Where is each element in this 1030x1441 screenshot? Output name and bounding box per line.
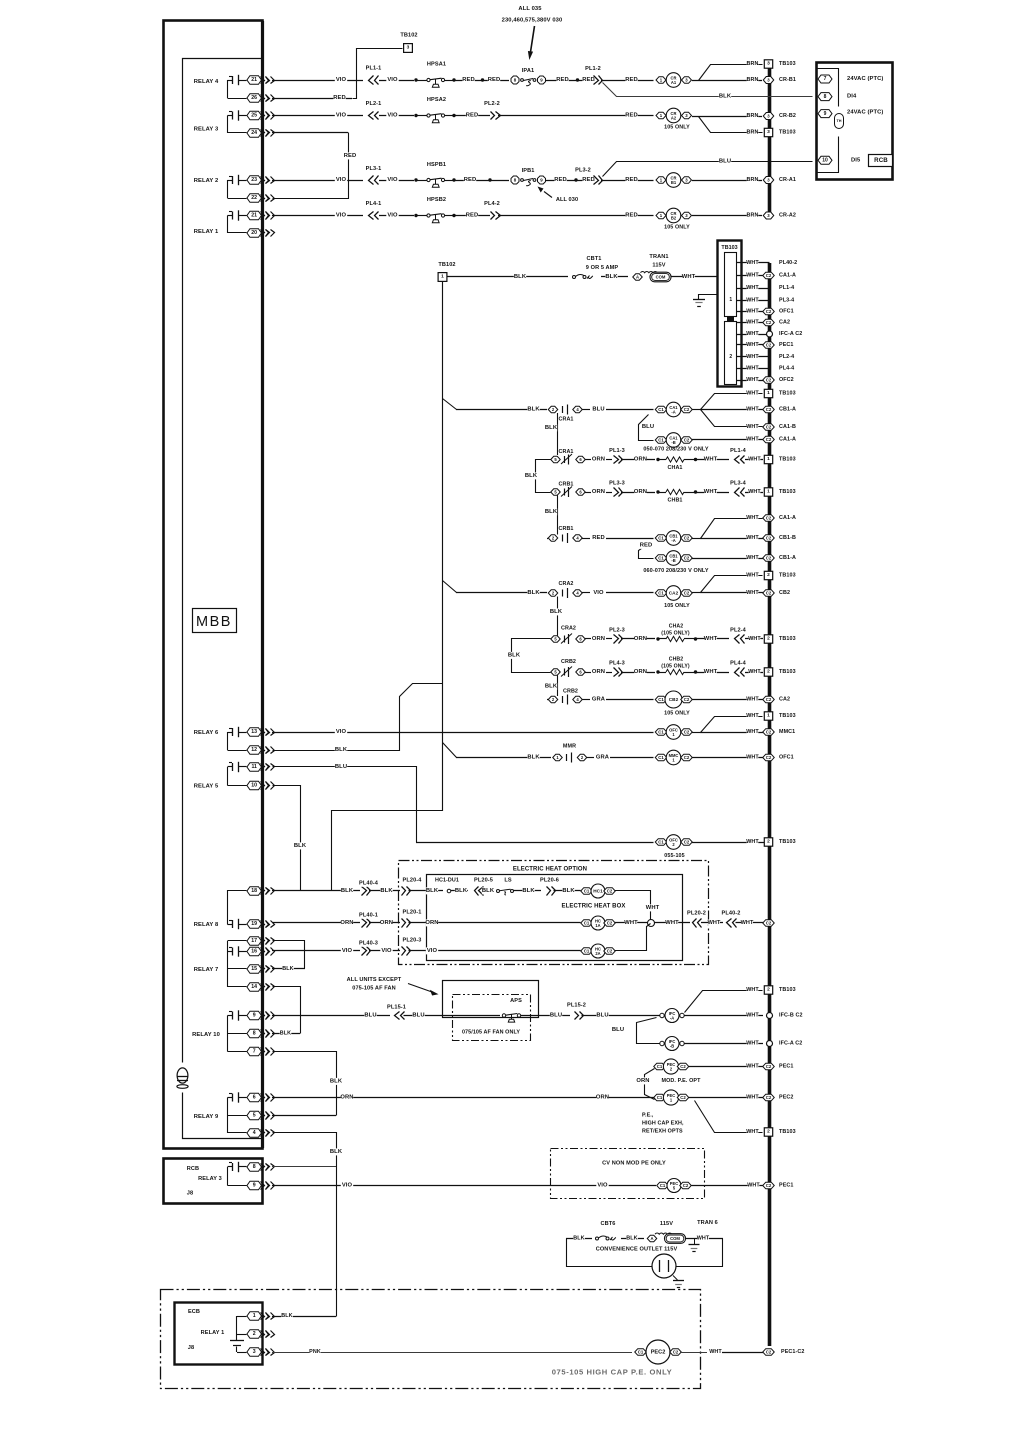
wire VIO	[369, 950, 400, 952]
RCB pin 7	[818, 75, 832, 83]
svg-text:-B: -B	[670, 1044, 674, 1049]
wire ORN hook	[645, 1069, 655, 1100]
wire OFC2 to bus	[692, 842, 770, 844]
svg-text:WHT: WHT	[746, 285, 759, 291]
wire PEC2opt to bus	[689, 1066, 763, 1068]
ground at TRAN6	[694, 1239, 696, 1245]
relay coil IFC-B	[660, 1041, 664, 1045]
limit switch LS	[497, 890, 500, 893]
MBB pin 26	[247, 94, 262, 103]
plug PL40-4	[362, 887, 367, 896]
svg-text:C2: C2	[766, 343, 772, 348]
svg-text:C2: C2	[766, 273, 772, 278]
svg-text:RELAY 3: RELAY 3	[198, 1176, 222, 1182]
svg-text:RED: RED	[625, 213, 638, 219]
RCB TH sensor symbol	[835, 114, 844, 129]
svg-text:WHT: WHT	[704, 636, 718, 642]
svg-text:VIO: VIO	[381, 948, 392, 954]
terminal row TB103 y1132	[747, 1129, 759, 1136]
svg-text:WHT: WHT	[748, 636, 761, 642]
plug PL15-1	[401, 1012, 405, 1020]
svg-text:C2: C2	[766, 425, 772, 430]
svg-text:PL20-5: PL20-5	[474, 878, 493, 884]
svg-text:IPB1: IPB1	[522, 168, 535, 174]
svg-text:(105 ONLY): (105 ONLY)	[661, 631, 690, 637]
svg-text:BRN: BRN	[747, 130, 759, 136]
svg-text:C2: C2	[673, 1350, 679, 1355]
svg-text:C2: C2	[684, 556, 690, 561]
svg-text:CRB1: CRB1	[558, 526, 573, 532]
svg-text:BLK: BLK	[527, 407, 540, 413]
svg-text:ORN: ORN	[634, 457, 647, 463]
svg-text:WHT: WHT	[746, 260, 759, 266]
svg-text:WHT: WHT	[746, 331, 759, 337]
wire BLK	[621, 1238, 644, 1240]
svg-text:C1: C1	[660, 1183, 666, 1188]
svg-text:4: 4	[253, 1130, 256, 1136]
terminal circle IFC-B C2	[767, 1013, 773, 1019]
svg-text:ELECTRIC HEAT BOX: ELECTRIC HEAT BOX	[562, 904, 626, 910]
MBB pin 23	[247, 176, 262, 185]
wire BLK bracket CRA1-CRB1	[536, 460, 551, 493]
wire WHT out of heat box	[655, 922, 691, 924]
svg-text:PL40-3: PL40-3	[359, 941, 378, 947]
relay contact (pin row y=732)	[228, 732, 233, 734]
wire BLU to IFC-A	[582, 1015, 660, 1017]
wire WHT to bus	[736, 922, 764, 924]
svg-text:TB102: TB102	[438, 262, 455, 268]
svg-text:RELAY 5: RELAY 5	[194, 784, 219, 790]
arrow to APS box	[408, 984, 432, 993]
relay contact (pin row y=767)	[228, 766, 233, 768]
svg-text:WHT: WHT	[746, 755, 759, 761]
svg-text:C2: C2	[766, 378, 772, 383]
svg-text:PEC1: PEC1	[779, 1064, 793, 1070]
svg-text:RED: RED	[625, 177, 638, 183]
wire CB2 to bus	[692, 699, 770, 701]
contactor coil MMC1	[655, 754, 667, 761]
svg-text:C1: C1	[658, 556, 664, 561]
wire RED to coil CR A2	[498, 115, 654, 117]
svg-text:RED: RED	[466, 213, 479, 219]
svg-text:C2: C2	[680, 1095, 686, 1100]
MBB pin 25	[247, 111, 262, 120]
wire BLK	[514, 890, 542, 892]
svg-text:CRA1: CRA1	[558, 417, 573, 423]
svg-text:15: 15	[251, 966, 257, 972]
svg-text:VIO: VIO	[342, 948, 353, 954]
svg-text:LS: LS	[504, 878, 512, 884]
svg-text:C1: C1	[658, 840, 664, 845]
svg-text:WHT: WHT	[746, 697, 759, 703]
wire ECB pin3 PNK row	[272, 1352, 632, 1354]
wire pin26 RED to TB102-3	[272, 98, 352, 100]
svg-text:CRB2: CRB2	[563, 689, 578, 695]
svg-text:-B: -B	[671, 440, 675, 445]
terminal TB102 pin 3	[404, 44, 413, 53]
wire to CR-A2	[692, 215, 762, 217]
TB103 section 1	[725, 253, 737, 317]
svg-text:6: 6	[253, 1095, 256, 1101]
MBB pin 12	[247, 746, 262, 755]
ECB board outline	[175, 1303, 263, 1365]
svg-text:PL4-3: PL4-3	[609, 661, 625, 667]
contactor coil CB1-B	[655, 555, 667, 562]
svg-text:26: 26	[251, 95, 257, 101]
wire BLK vertical CRB1	[557, 496, 559, 535]
svg-text:RED: RED	[554, 177, 567, 183]
svg-text:HC1-DU1: HC1-DU1	[435, 878, 459, 884]
plug PL15-2	[575, 1012, 579, 1020]
svg-text:BLK: BLK	[330, 1149, 343, 1155]
svg-text:-B: -B	[671, 558, 675, 563]
svg-text:VIO: VIO	[593, 590, 604, 596]
wire IFC-A to bus	[684, 1015, 763, 1017]
svg-text:CA2: CA2	[669, 591, 679, 596]
relay coil CR A2	[656, 112, 666, 119]
svg-text:BLK: BLK	[573, 1236, 584, 1242]
MBB pin 7	[247, 1047, 262, 1056]
contactor coil CA1-B	[655, 437, 667, 444]
svg-text:BLK: BLK	[719, 94, 732, 100]
ECB relay bracket	[236, 1316, 238, 1340]
svg-text:PL2-1: PL2-1	[366, 101, 382, 107]
svg-text:1: 1	[767, 489, 770, 495]
svg-text:9: 9	[253, 1013, 256, 1019]
svg-text:1: 1	[253, 1313, 256, 1319]
TB103 terminal block outline	[718, 241, 742, 387]
ground stub at TB103	[699, 295, 718, 300]
svg-text:ORN: ORN	[425, 920, 438, 926]
svg-text:ORN: ORN	[340, 920, 353, 926]
wire row PL1-1 VIO	[272, 80, 363, 82]
svg-text:BLK: BLK	[527, 590, 540, 596]
wire fanout CA2	[692, 592, 700, 594]
svg-text:9: 9	[253, 1183, 256, 1189]
svg-text:A: A	[650, 1236, 653, 1241]
terminal CR-B2	[763, 113, 774, 120]
svg-text:C2: C2	[766, 516, 772, 521]
relay bracket wire	[227, 1016, 229, 1052]
svg-text:ORN: ORN	[636, 1078, 649, 1084]
RCB pin 9	[247, 1181, 262, 1190]
svg-text:C2: C2	[607, 921, 613, 926]
svg-text:A1: A1	[671, 80, 677, 85]
wire BLK vertical CRA2	[557, 597, 559, 636]
svg-text:RELAY 8: RELAY 8	[194, 922, 219, 928]
svg-text:BLK: BLK	[514, 274, 527, 280]
MBB pin 9	[247, 1011, 262, 1020]
svg-text:PL3-2: PL3-2	[575, 168, 591, 174]
svg-text:BLK: BLK	[482, 888, 495, 894]
svg-text:C2: C2	[766, 309, 772, 314]
MBB inner border	[183, 59, 263, 1063]
svg-text:WHT: WHT	[746, 573, 759, 579]
svg-text:TB103: TB103	[779, 636, 796, 642]
svg-text:A: A	[636, 275, 639, 280]
svg-text:17: 17	[251, 938, 257, 944]
wire pins17-15 bracket right	[273, 941, 305, 969]
contactor coil PEC 5	[657, 1182, 669, 1189]
pressure switch HPSB2	[414, 214, 417, 217]
svg-text:ALL 035: ALL 035	[518, 6, 542, 12]
RCB name box	[869, 155, 893, 167]
svg-text:C2: C2	[766, 1183, 772, 1188]
svg-text:075/105 AF FAN ONLY: 075/105 AF FAN ONLY	[462, 1030, 520, 1036]
svg-text:CV NON MOD PE ONLY: CV NON MOD PE ONLY	[602, 1161, 666, 1167]
svg-text:BLU: BLU	[596, 1013, 608, 1019]
wire pin6 ORN row	[272, 1097, 654, 1099]
svg-text:ORN: ORN	[634, 669, 647, 675]
contactor coil CA2	[655, 590, 667, 597]
ECB pin 2	[247, 1330, 262, 1339]
svg-text:ORN: ORN	[592, 489, 605, 495]
svg-text:RED: RED	[333, 95, 346, 101]
MBB pin 21	[247, 76, 262, 85]
svg-text:VIO: VIO	[336, 213, 347, 219]
svg-text:5: 5	[253, 1113, 256, 1119]
MBB pin 5	[247, 1111, 262, 1120]
ECB pin 3	[247, 1348, 262, 1357]
MBB pin 13	[247, 728, 262, 737]
svg-text:PL20-3: PL20-3	[403, 938, 422, 944]
electric heat solid box	[427, 875, 683, 961]
svg-text:2: 2	[767, 669, 770, 675]
switch IPA1	[511, 76, 519, 84]
wire pin10 BLK vertical	[273, 786, 301, 891]
svg-text:WHT: WHT	[704, 489, 718, 495]
svg-text:WHT: WHT	[746, 298, 759, 304]
wire RCB pin9 VIO row	[272, 1185, 656, 1187]
svg-text:BLK: BLK	[335, 747, 348, 753]
wire RED to coil	[601, 80, 654, 82]
svg-text:CR-A2: CR-A2	[779, 213, 796, 219]
relay coil CR B2	[656, 212, 666, 219]
svg-text:A2: A2	[671, 116, 677, 121]
svg-text:GRA: GRA	[592, 697, 606, 703]
svg-text:23: 23	[251, 177, 257, 183]
svg-text:C1: C1	[658, 755, 664, 760]
plug PL1-2	[594, 76, 599, 85]
svg-text:PL15-2: PL15-2	[567, 1003, 586, 1009]
svg-text:TB103: TB103	[779, 61, 796, 67]
svg-text:TB103: TB103	[779, 839, 796, 845]
svg-text:BLU: BLU	[550, 1013, 562, 1019]
plug PL20-1	[402, 919, 406, 928]
svg-text:PEC1-C2: PEC1-C2	[781, 1349, 804, 1355]
svg-text:C1: C1	[658, 697, 664, 702]
junction dot	[488, 178, 491, 181]
wire BLU to RCB DI5	[603, 162, 813, 177]
wire pin11 BLU jog	[273, 767, 417, 843]
contactor coil HC 2A	[581, 948, 593, 955]
svg-text:CB2: CB2	[669, 697, 679, 702]
svg-text:CA1-A: CA1-A	[779, 437, 796, 443]
wire WHT to node	[615, 922, 648, 924]
svg-text:BLU: BLU	[592, 407, 604, 413]
svg-text:WHT: WHT	[746, 437, 759, 443]
svg-text:TB103: TB103	[779, 987, 796, 993]
svg-text:WHT: WHT	[709, 1349, 722, 1355]
MBB main base board outline	[164, 21, 263, 1149]
svg-text:C1: C1	[657, 1095, 663, 1100]
wire VIO	[379, 180, 414, 182]
svg-text:PL1-3: PL1-3	[609, 448, 625, 454]
junction dot	[576, 78, 579, 81]
pressure switch HSPB1	[414, 178, 417, 181]
svg-text:C1: C1	[657, 1064, 663, 1069]
svg-text:BRN: BRN	[747, 177, 759, 183]
svg-text:CBT1: CBT1	[586, 256, 601, 262]
svg-text:C2: C2	[766, 556, 772, 561]
svg-text:CB2: CB2	[779, 590, 790, 596]
wire pin24 RED vertical	[272, 132, 348, 134]
svg-text:2: 2	[767, 987, 770, 993]
plug HC1-DU1	[447, 889, 451, 893]
svg-text:WHT: WHT	[746, 713, 759, 719]
wire diag to TB103 y1132	[695, 1101, 763, 1133]
plug PL20-2	[698, 919, 702, 928]
svg-text:12: 12	[251, 747, 257, 753]
svg-text:075-105 AF FAN: 075-105 AF FAN	[352, 986, 395, 992]
svg-text:MMR: MMR	[563, 744, 576, 750]
svg-text:2: 2	[253, 1331, 256, 1337]
svg-text:RELAY 3: RELAY 3	[194, 127, 219, 133]
svg-text:19: 19	[251, 921, 257, 927]
svg-text:PL20-6: PL20-6	[540, 878, 559, 884]
relay bracket wire	[227, 732, 229, 750]
svg-text:TRAN 6: TRAN 6	[697, 1220, 718, 1226]
svg-text:RCB: RCB	[187, 1166, 199, 1172]
svg-text:WHT: WHT	[748, 489, 761, 495]
bracket pins 17-16-15-14	[227, 941, 229, 987]
svg-text:BRN: BRN	[747, 213, 759, 219]
wire MMC1 to bus	[692, 757, 770, 759]
svg-text:C2: C2	[684, 755, 690, 760]
svg-text:8: 8	[253, 1031, 256, 1037]
svg-text:C2: C2	[684, 591, 690, 596]
svg-text:PL40-2: PL40-2	[779, 260, 797, 266]
svg-text:C2: C2	[684, 697, 690, 702]
svg-text:COM: COM	[670, 1236, 680, 1241]
svg-text:3: 3	[767, 61, 770, 67]
ground at outlet	[673, 1276, 678, 1281]
relay bracket wire	[227, 116, 229, 134]
svg-text:RED: RED	[582, 177, 595, 183]
svg-text:WHT: WHT	[746, 987, 759, 993]
svg-text:RELAY 10: RELAY 10	[192, 1032, 220, 1038]
svg-text:PEC2: PEC2	[779, 1095, 793, 1101]
svg-text:RELAY 2: RELAY 2	[194, 178, 219, 184]
plug PL4-1	[375, 212, 379, 220]
MBB pin 17	[247, 937, 262, 946]
wire pin14 to pin8	[273, 987, 301, 1034]
wire RED tap to CB1-B coil	[639, 544, 654, 559]
wire BLU	[404, 1015, 501, 1017]
svg-text:RED: RED	[640, 543, 653, 549]
terminal C2 PEC1-C2	[763, 1349, 775, 1356]
svg-text:C2: C2	[684, 407, 690, 412]
svg-text:C1: C1	[638, 1350, 644, 1355]
svg-text:C2: C2	[766, 921, 772, 926]
svg-text:TB102: TB102	[400, 33, 417, 39]
svg-text:VIO: VIO	[387, 113, 398, 119]
svg-text:BLK: BLK	[280, 1031, 291, 1037]
svg-text:C2: C2	[766, 407, 772, 412]
plug PL20-5	[479, 887, 484, 896]
svg-text:24VAC (PTC): 24VAC (PTC)	[847, 76, 883, 82]
svg-text:OFC1: OFC1	[779, 755, 794, 761]
contactor coil CA1-A	[655, 406, 667, 413]
svg-text:BLK: BLK	[330, 1079, 343, 1085]
wire PEC1 to bus	[689, 1097, 763, 1099]
pressure switch HPSA1	[414, 78, 417, 81]
svg-text:C2: C2	[766, 591, 772, 596]
svg-text:8: 8	[824, 94, 827, 100]
label 075-105 HIGH CAP P.E. ONLY	[550, 1367, 674, 1376]
svg-text:MMC1: MMC1	[779, 729, 795, 735]
contactor coil OFC1 row	[655, 729, 667, 736]
relay contact (pin row y=80)	[228, 80, 233, 82]
wire RED to coil CR B2	[498, 215, 654, 217]
RCB bracket	[227, 1167, 229, 1186]
svg-text:105 ONLY: 105 ONLY	[664, 711, 690, 717]
svg-text:21: 21	[251, 213, 257, 219]
svg-text:VIO: VIO	[336, 77, 347, 83]
switch IPB1	[511, 176, 519, 184]
relay bracket wire	[227, 80, 229, 98]
svg-text:PEC1: PEC1	[779, 1183, 793, 1189]
wire ECB pin1 BLK	[272, 1316, 336, 1318]
plug PL1-1	[375, 76, 379, 85]
svg-text:PL3-4: PL3-4	[730, 481, 747, 487]
svg-text:14: 14	[251, 984, 257, 990]
svg-text:HPSA1: HPSA1	[427, 62, 446, 68]
svg-text:WHT: WHT	[746, 1041, 759, 1047]
svg-text:BLK: BLK	[545, 425, 558, 431]
svg-text:RELAY 7: RELAY 7	[194, 967, 219, 973]
svg-text:PL20-4: PL20-4	[403, 878, 423, 884]
MBB J8 plug symbol	[177, 1068, 188, 1083]
plug PL4-2	[491, 212, 495, 220]
wire RED	[454, 180, 509, 182]
svg-text:C1: C1	[658, 591, 664, 596]
wire ORN	[409, 922, 581, 924]
wire RED	[454, 115, 490, 117]
svg-text:COM: COM	[656, 275, 666, 280]
svg-text:BLU: BLU	[642, 424, 654, 430]
junction dot	[481, 78, 484, 81]
svg-text:2: 2	[767, 1129, 770, 1135]
wire main BLK vertical	[442, 282, 444, 812]
svg-text:PEC2: PEC2	[651, 1349, 666, 1355]
svg-text:RELAY 1: RELAY 1	[194, 229, 219, 235]
svg-text:RED: RED	[625, 77, 638, 83]
terminal C2 PEC2	[763, 1094, 775, 1101]
contactor coil HC 1A	[581, 920, 593, 927]
svg-text:RED: RED	[488, 77, 501, 83]
wire BLK elbow to row 891	[332, 811, 443, 891]
terminal CR-B1	[763, 77, 774, 84]
TB103 connector block	[727, 317, 734, 322]
RCB board outline	[817, 63, 893, 180]
svg-text:1: 1	[767, 390, 770, 396]
RCB pin 10	[818, 156, 832, 164]
svg-text:IFC-A C2: IFC-A C2	[779, 331, 802, 337]
relay contact (pin row y=1015.5)	[228, 1015, 233, 1017]
terminal row CB2 y593	[747, 590, 759, 597]
wire VIO	[379, 80, 414, 82]
